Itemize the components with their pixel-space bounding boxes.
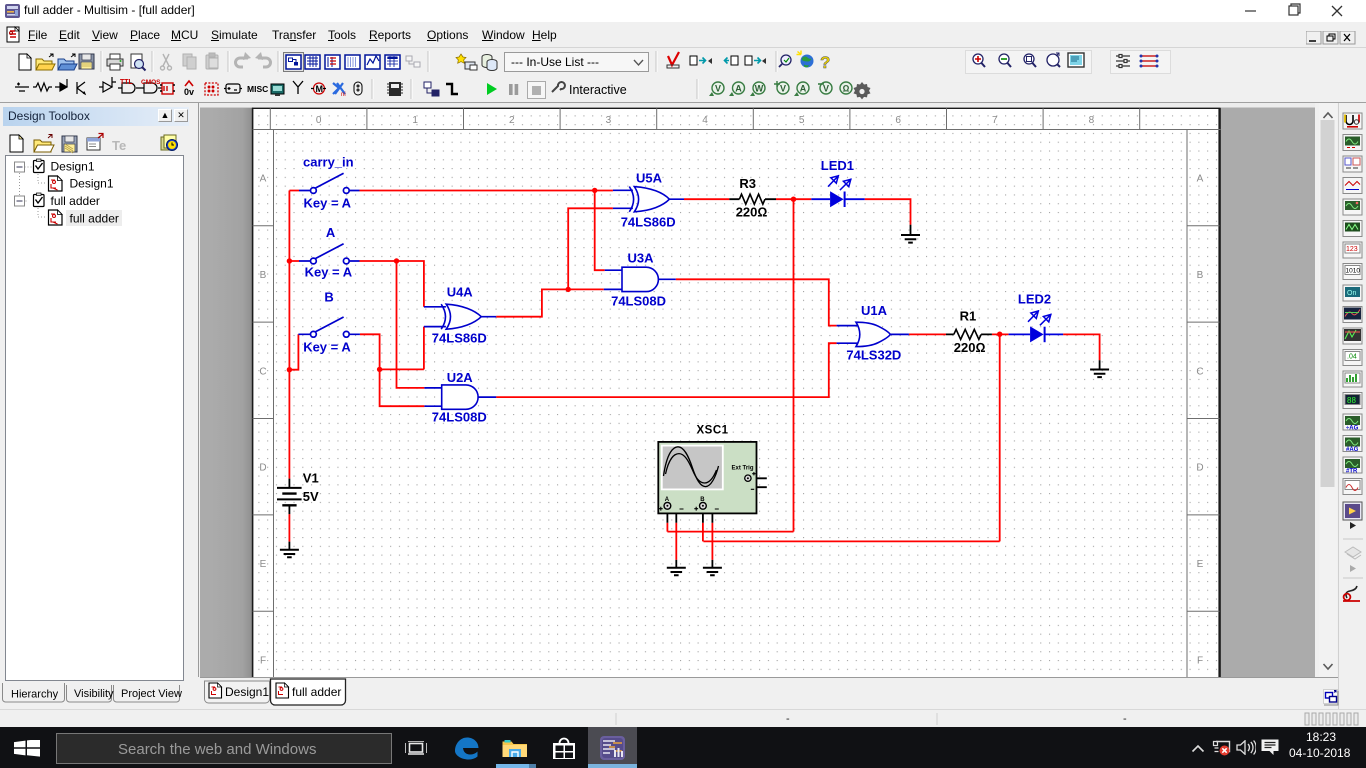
svg-text:-: - [1123, 713, 1127, 725]
svg-text:220Ω: 220Ω [736, 204, 768, 219]
svg-text:Interactive: Interactive [569, 83, 627, 97]
svg-text:full adder: full adder [70, 212, 119, 226]
wire B output [360, 327, 425, 407]
LED1 ground stub [910, 225, 912, 235]
new [19, 54, 31, 70]
zone lines [253, 108, 1221, 683]
svg-text:XSC1: XSC1 [697, 425, 729, 437]
junction node B switch supply [287, 367, 292, 372]
wire node to U5A lower [568, 208, 613, 289]
svg-text:V1: V1 [303, 471, 319, 486]
transfer icons [690, 56, 706, 65]
vertical scrollbar [1319, 103, 1337, 677]
scope ground stubs [676, 560, 712, 568]
ground LED2 [1090, 370, 1109, 378]
resistor R1 [954, 329, 981, 339]
svg-text:U4A: U4A [447, 285, 474, 300]
sheet tab strip [200, 677, 1320, 709]
svg-text:74LS08D: 74LS08D [611, 294, 666, 309]
svg-text:--- In-Use List ---: --- In-Use List --- [511, 55, 599, 69]
switch A [299, 244, 360, 264]
toolbar row 2 [0, 76, 1366, 103]
junction node carry_in at U5A input [592, 188, 597, 193]
LED2 ground stub [1099, 360, 1101, 369]
labview [1343, 502, 1362, 520]
svg-text:Key = A: Key = A [305, 265, 353, 280]
svg-text:V: V [715, 84, 721, 94]
design toolbox panel [0, 103, 196, 709]
svg-text:C: C [1196, 366, 1203, 377]
svg-text:A: A [326, 225, 336, 240]
svg-text:D: D [1196, 463, 1203, 474]
wire A to U2A [397, 261, 425, 388]
sheet border [252, 108, 1221, 683]
panel toolbar icons [10, 135, 23, 152]
resistor R3 [739, 194, 765, 204]
svg-text:Key = A: Key = A [304, 195, 352, 210]
AND gate U3A [604, 267, 676, 291]
window title bar [0, 0, 1366, 22]
svg-text:7: 7 [992, 115, 998, 126]
wire U2A out to U1A lower [496, 343, 836, 397]
battery stubs [288, 479, 290, 550]
svg-text:U5A: U5A [636, 171, 663, 186]
svg-text:Project View: Project View [121, 688, 182, 700]
svg-text:F: F [260, 656, 266, 667]
ground battery [280, 550, 299, 558]
svg-text:74LS08D: 74LS08D [432, 410, 487, 425]
combo [505, 53, 649, 72]
svg-text:#TR: #TR [1346, 469, 1358, 475]
svg-text:R1: R1 [960, 309, 977, 324]
svg-text:5V: 5V [303, 489, 319, 504]
XOR gate U4A [424, 304, 496, 329]
print [107, 59, 123, 66]
svg-text:B: B [1197, 270, 1204, 281]
cut copy paste gray [161, 54, 172, 70]
svg-text:04-10-2018: 04-10-2018 [1289, 746, 1351, 760]
last group [1111, 51, 1171, 74]
switch B [298, 317, 360, 337]
wire carry_in row [289, 190, 613, 192]
wire A row [289, 261, 424, 307]
menu bar [0, 22, 1366, 48]
wire carry node down to scope B [703, 334, 999, 541]
right instruments toolbar [1338, 103, 1366, 713]
svg-text:Te: Te [112, 138, 126, 153]
junction node sum after R3 [791, 197, 796, 202]
junction node A switch supply [287, 258, 292, 263]
page icons [49, 176, 63, 225]
switch carry_in [299, 173, 360, 193]
wire U4A out to node [496, 289, 604, 316]
svg-text:U1A: U1A [861, 303, 888, 318]
svg-text:4: 4 [702, 115, 708, 126]
wire LED2 to gnd corner [1063, 334, 1100, 360]
canvas [196, 103, 1320, 709]
svg-text:Design1: Design1 [70, 177, 114, 191]
status bar [0, 709, 1366, 727]
wire main left vertical [288, 191, 290, 479]
svg-text:M: M [316, 84, 324, 94]
svg-text:0v: 0v [184, 87, 194, 97]
svg-text:C: C [259, 366, 266, 377]
svg-text:B: B [700, 497, 705, 503]
svg-text:74LS86D: 74LS86D [432, 330, 487, 345]
sheet [253, 108, 1220, 683]
ERC [668, 52, 679, 65]
svg-text:Ext Trig: Ext Trig [732, 466, 754, 472]
svg-text:E: E [260, 559, 267, 570]
svg-text:A: A [665, 497, 670, 503]
preview [131, 54, 142, 68]
svg-text:Key = A: Key = A [303, 340, 351, 355]
wire scope stubs red parts [667, 523, 712, 560]
svg-text:18:23: 18:23 [1306, 730, 1336, 744]
svg-text:ni: ni [341, 92, 346, 98]
wire LED1 to gnd corner [865, 199, 911, 225]
svg-text:2: 2 [509, 115, 515, 126]
svg-text:Design1: Design1 [225, 685, 269, 699]
junction node carry_out after R1 [997, 332, 1002, 337]
junction node B output [377, 367, 382, 372]
XOR gate U5A [613, 187, 684, 212]
analysis circled icons [709, 81, 871, 99]
battery V1 [277, 488, 302, 505]
svg-text:D: D [259, 463, 266, 474]
svg-text:full adder: full adder [51, 194, 100, 208]
windows taskbar [0, 727, 1366, 768]
svg-text:V: V [823, 84, 829, 94]
wire R1 to LED2 [992, 333, 1009, 335]
svg-text:88: 88 [1347, 396, 1356, 405]
svg-text:Design1: Design1 [51, 160, 95, 174]
svg-text:On: On [1347, 290, 1356, 297]
svg-text:74LS32D: 74LS32D [846, 348, 901, 363]
find globe help [781, 55, 791, 65]
wire battery to ground red [288, 514, 290, 542]
svg-text:1010: 1010 [1346, 268, 1361, 275]
svg-text:Hierarchy: Hierarchy [11, 689, 59, 701]
wire sum node down to scope A [667, 199, 793, 531]
svg-text:.04: .04 [1347, 354, 1357, 361]
svg-text:carry_in: carry_in [303, 155, 354, 170]
svg-text:F: F [1197, 656, 1203, 667]
wire U1A out [909, 333, 946, 335]
tab full adder (active) [271, 679, 346, 705]
svg-text:÷AG: ÷AG [1346, 426, 1359, 432]
clipboard icons [34, 159, 45, 207]
LED1 [811, 175, 864, 207]
svg-text:B: B [260, 270, 267, 281]
svg-text:0: 0 [316, 115, 322, 126]
svg-text:full adder: full adder [292, 685, 341, 699]
svg-text:A: A [800, 84, 807, 94]
svg-text:LED1: LED1 [821, 158, 854, 173]
sim controls [487, 83, 497, 95]
wire U5A out [684, 198, 729, 200]
wire carry to U3A upper [595, 190, 605, 270]
svg-text:-: - [786, 713, 790, 725]
svg-text:E: E [1197, 559, 1204, 570]
toggle buttons group [284, 53, 421, 72]
svg-text:CMOS: CMOS [141, 79, 161, 86]
bottom tabs [0, 681, 196, 709]
tab Design1 [205, 681, 270, 703]
svg-text:74LS86D: 74LS86D [621, 215, 676, 230]
svg-text:A: A [260, 174, 267, 185]
svg-text:U3A: U3A [628, 251, 655, 266]
tree connectors [20, 167, 48, 217]
scope terminal stubs [667, 506, 712, 523]
junction node A xor B [566, 287, 571, 292]
off-sheet gray [200, 103, 1315, 677]
ground scope A [667, 568, 686, 576]
svg-text:TTL: TTL [120, 79, 134, 86]
svg-text:5: 5 [799, 115, 805, 126]
zoom group [966, 51, 1092, 74]
ground LED1 [901, 235, 920, 243]
open yellow [36, 59, 52, 70]
toolbar row 1 [0, 48, 1366, 76]
resistor R1 leads [946, 333, 992, 335]
svg-text:W: W [755, 84, 764, 94]
svg-text:1: 1 [412, 115, 418, 126]
svg-text:8: 8 [1089, 115, 1095, 126]
svg-text:#AG: #AG [1346, 447, 1359, 453]
svg-text:R3: R3 [739, 176, 756, 191]
svg-text:3: 3 [606, 115, 612, 126]
resistor R3 leads [729, 198, 776, 200]
OR gate U1A [837, 322, 909, 346]
wire B left lead drop [289, 334, 298, 369]
junction node A output [394, 258, 399, 263]
AND gate U2A [424, 385, 496, 409]
svg-text:123: 123 [1346, 246, 1358, 253]
oscilloscope XSC1 [658, 442, 756, 514]
svg-text:Search the web and Windows: Search the web and Windows [118, 741, 316, 758]
svg-text:A: A [735, 84, 742, 94]
save [79, 54, 94, 69]
svg-text:V: V [780, 84, 786, 94]
svg-text:A: A [1197, 174, 1204, 185]
LED2 [1009, 311, 1064, 343]
svg-text:LED2: LED2 [1018, 291, 1051, 306]
svg-text:B: B [324, 289, 333, 304]
current probe [1343, 586, 1360, 601]
new component + db [456, 54, 466, 63]
zone labels [259, 115, 1203, 667]
grayed [1345, 547, 1361, 559]
svg-text:6: 6 [895, 115, 901, 126]
ground scope B [703, 568, 722, 576]
wire U3A out to U1A upper [676, 279, 837, 325]
svg-text:Ω: Ω [843, 84, 850, 94]
svg-text:?: ? [820, 53, 830, 72]
svg-text:U2A: U2A [447, 370, 474, 385]
svg-text:220Ω: 220Ω [954, 340, 986, 355]
open blue [58, 59, 74, 70]
wire R3 to LED1 [776, 198, 811, 200]
ext trig stubs [748, 478, 767, 487]
svg-text:Visibility: Visibility [74, 688, 114, 700]
svg-text:MISC: MISC [247, 84, 268, 94]
